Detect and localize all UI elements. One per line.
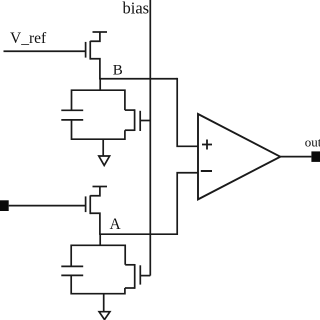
input terminal (black square) [0, 200, 9, 211]
output terminal (black square) [311, 151, 320, 162]
power rail bar (M1 drain) [93, 31, 108, 33]
ground (lower) [99, 294, 110, 320]
op-amp U1 [198, 114, 280, 199]
wire: op-amp output [280, 156, 311, 158]
wire: bottom side of C1/M3 pair [72, 120, 125, 139]
transistor M2 [86, 187, 100, 235]
wire: node B to op-amp + input [177, 78, 198, 146]
wire: node B horizontal [99, 78, 177, 80]
wire: node A horizontal [99, 233, 177, 235]
transistor M1 [86, 32, 100, 79]
op-amp + input marker [202, 140, 212, 150]
wire: top side of C2/M4 pair [71, 245, 125, 266]
wire: V_ref to M1 gate [4, 50, 86, 52]
wire: bottom side of C2/M4 pair [71, 275, 125, 293]
power rail bar (M2 drain) [93, 186, 108, 188]
svg-text:bias: bias [123, 0, 150, 18]
wire: bias vertical line [149, 0, 151, 276]
svg-text:B: B [113, 62, 123, 78]
op-amp - input marker [201, 170, 212, 172]
wire: node A to op-amp - input [177, 173, 198, 235]
transistor M3 (gate to bias) [125, 109, 150, 131]
ground (upper) [99, 139, 110, 165]
svg-text:V_ref: V_ref [10, 30, 47, 47]
wire: top side of C1/M3 pair [72, 90, 125, 110]
wire: node A down to C2/M4 [99, 234, 101, 245]
svg-text:A: A [110, 216, 122, 233]
transistor M4 (gate to bias) [125, 264, 150, 289]
capacitor C1 [61, 110, 83, 120]
wire: node B down to C1/M3 [99, 79, 101, 90]
wire: input to M2 gate [9, 205, 86, 207]
svg-text:out: out [305, 135, 320, 150]
capacitor C2 [61, 266, 83, 275]
